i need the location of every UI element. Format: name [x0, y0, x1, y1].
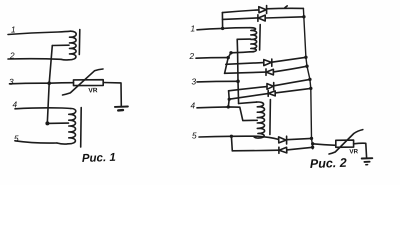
- svg-text:4: 4: [12, 99, 17, 109]
- svg-text:5: 5: [192, 130, 197, 140]
- svg-text:1: 1: [11, 24, 16, 34]
- svg-text:Рис. 1: Рис. 1: [82, 152, 116, 165]
- svg-text:3: 3: [191, 76, 196, 86]
- svg-text:2: 2: [9, 50, 15, 60]
- svg-text:2: 2: [188, 51, 194, 61]
- svg-text:3: 3: [9, 77, 14, 87]
- svg-text:VR: VR: [88, 87, 98, 94]
- svg-text:4: 4: [190, 100, 195, 110]
- svg-text:1: 1: [190, 23, 195, 33]
- svg-text:Рис. 2: Рис. 2: [310, 156, 347, 171]
- svg-text:5: 5: [14, 133, 19, 143]
- svg-text:VR: VR: [349, 148, 358, 155]
